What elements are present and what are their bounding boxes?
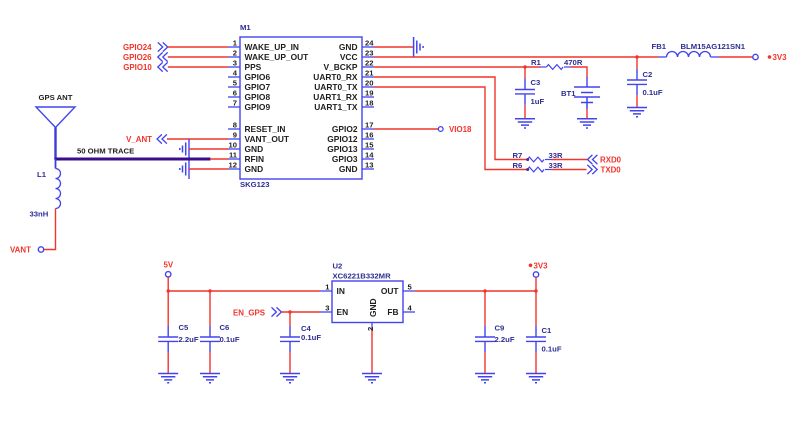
svg-text:21: 21 — [365, 69, 374, 78]
pin 14 GPIO3 of M1 — [332, 151, 374, 164]
junction C4 — [288, 310, 291, 313]
svg-text:7: 7 — [233, 99, 237, 108]
junction C9 — [483, 289, 486, 292]
wire pin 24 to ground — [374, 46, 413, 48]
pin 20 UART0_TX of M1 — [314, 79, 374, 92]
wire VCC rail pin 23 to FB1 — [374, 56, 659, 58]
svg-text:U2: U2 — [333, 262, 343, 271]
svg-text:RFIN: RFIN — [245, 154, 265, 164]
svg-text:1uF: 1uF — [531, 97, 545, 106]
wire EN_GPS to U2 EN — [281, 311, 320, 313]
svg-text:11: 11 — [229, 151, 238, 160]
ground below C6 — [200, 374, 220, 383]
svg-text:9: 9 — [233, 131, 237, 140]
svg-text:2.2uF: 2.2uF — [179, 335, 199, 344]
pin 13 GND of M1 — [339, 161, 374, 174]
resistor R6 — [526, 167, 551, 172]
battery BT1 — [574, 77, 600, 119]
pin 5 OUT of U2 — [381, 283, 415, 296]
node VIO18 port — [438, 125, 472, 134]
pin 11 RFIN of M1 — [228, 151, 264, 164]
svg-text:V_BCKP: V_BCKP — [324, 62, 358, 72]
svg-text:WAKE_UP_OUT: WAKE_UP_OUT — [245, 52, 310, 62]
pin 24 GND of M1 — [339, 39, 374, 52]
svg-text:3V3: 3V3 — [534, 261, 549, 270]
capacitor C5 — [158, 291, 178, 373]
svg-text:16: 16 — [365, 131, 373, 140]
ground at pin 10 (sideways) — [180, 143, 186, 156]
svg-text:14: 14 — [365, 151, 374, 160]
IC M1 GPS module body — [240, 37, 362, 179]
capacitor C6 — [200, 291, 220, 373]
pin 19 UART1_RX of M1 — [313, 89, 374, 102]
svg-text:PPS: PPS — [245, 62, 262, 72]
ground below C2 — [627, 108, 647, 117]
pin 10 GND of M1 — [228, 141, 263, 154]
svg-text:18: 18 — [365, 99, 373, 108]
svg-text:3: 3 — [325, 304, 329, 313]
svg-text:50 OHM TRACE: 50 OHM TRACE — [77, 147, 134, 156]
wire 5V rail to U2 IN — [168, 290, 320, 292]
node RXD0 — [588, 155, 622, 164]
svg-text:OUT: OUT — [381, 286, 400, 296]
pin 2 GND of U2 — [366, 298, 378, 331]
ground at pin 12 (sideways) — [180, 163, 186, 176]
svg-text:33R: 33R — [549, 151, 564, 160]
svg-text:UART1_RX: UART1_RX — [313, 92, 358, 102]
svg-text:WAKE_UP_IN: WAKE_UP_IN — [245, 42, 299, 52]
svg-text:23: 23 — [365, 49, 373, 58]
svg-text:BT1: BT1 — [561, 89, 576, 98]
svg-text:33R: 33R — [549, 161, 564, 170]
wire U2 OUT to +3V3 — [415, 290, 536, 292]
wire ground to pin 10 — [189, 148, 228, 150]
wire ground to pin 12 — [189, 168, 228, 170]
svg-text:0.1uF: 0.1uF — [301, 333, 321, 342]
svg-text:33nH: 33nH — [30, 210, 49, 219]
svg-text:GPIO6: GPIO6 — [245, 72, 271, 82]
node +3V3 port (bottom) — [529, 261, 548, 277]
node 5V port — [164, 260, 174, 277]
junction C3 branch — [523, 65, 526, 68]
svg-text:R1: R1 — [531, 58, 542, 67]
svg-text:UART1_TX: UART1_TX — [314, 102, 358, 112]
pin 9 VANT_OUT of M1 — [228, 131, 290, 144]
pin 8 RESET_IN of M1 — [228, 121, 285, 134]
ground below C1 — [526, 374, 546, 383]
inductor L1 — [56, 159, 61, 209]
wire GPIO24 to pin 1 — [168, 46, 228, 48]
svg-text:GPIO9: GPIO9 — [245, 102, 271, 112]
wire 50 ohm RF trace — [55, 158, 211, 161]
pin 23 VCC of M1 — [340, 49, 374, 62]
pin 18 UART1_TX of M1 — [314, 99, 374, 112]
svg-text:20: 20 — [365, 79, 373, 88]
svg-text:GND: GND — [339, 42, 358, 52]
svg-text:XC6221B332MR: XC6221B332MR — [333, 272, 392, 281]
svg-text:GPIO2: GPIO2 — [332, 124, 358, 134]
junction C1 / +3V3 — [534, 289, 537, 292]
svg-text:GPIO10: GPIO10 — [123, 63, 152, 72]
svg-text:0.1uF: 0.1uF — [542, 345, 562, 354]
svg-text:2: 2 — [233, 49, 237, 58]
ferrite bead FB1 — [659, 52, 720, 57]
svg-text:22: 22 — [365, 59, 373, 68]
svg-text:M1: M1 — [240, 23, 251, 32]
svg-text:L1: L1 — [37, 170, 47, 179]
svg-text:2: 2 — [366, 327, 375, 331]
svg-text:GPIO12: GPIO12 — [327, 134, 358, 144]
svg-text:17: 17 — [365, 121, 373, 130]
svg-text:C6: C6 — [220, 323, 230, 332]
svg-text:3V3: 3V3 — [773, 53, 788, 62]
node VANT port — [10, 245, 44, 254]
svg-text:GPIO8: GPIO8 — [245, 92, 271, 102]
pin 3 PPS of M1 — [228, 59, 262, 72]
svg-text:GPS ANT: GPS ANT — [39, 93, 73, 102]
svg-text:3: 3 — [233, 59, 237, 68]
pin 1 WAKE_UP_IN of M1 — [228, 39, 299, 52]
pin 5 GPIO7 of M1 — [228, 79, 270, 92]
svg-text:VANT: VANT — [10, 245, 31, 254]
pin 3 EN of U2 — [320, 304, 348, 317]
ground below BT1 — [577, 119, 597, 128]
svg-text:GPIO3: GPIO3 — [332, 154, 358, 164]
svg-text:VANT_OUT: VANT_OUT — [245, 134, 290, 144]
pin 17 GPIO2 of M1 — [332, 121, 374, 134]
svg-text:2.2uF: 2.2uF — [495, 335, 515, 344]
svg-text:GPIO7: GPIO7 — [245, 82, 271, 92]
svg-text:V_ANT: V_ANT — [126, 135, 152, 144]
svg-text:UART0_TX: UART0_TX — [314, 82, 358, 92]
pin 12 GND of M1 — [228, 161, 263, 174]
svg-text:C1: C1 — [542, 326, 553, 335]
svg-text:GPIO26: GPIO26 — [123, 53, 152, 62]
svg-text:GPIO13: GPIO13 — [327, 144, 358, 154]
capacitor C3 — [515, 67, 535, 119]
resistor R1 — [541, 65, 572, 70]
junction C6 — [208, 289, 211, 292]
svg-text:R6: R6 — [513, 161, 523, 170]
wire pin 21 UART0_RX to R7 — [374, 77, 527, 160]
ground at pin 24 (sideways) — [414, 37, 424, 57]
svg-text:RXD0: RXD0 — [600, 155, 622, 164]
wire R7 to RXD0 — [552, 159, 588, 161]
svg-text:6: 6 — [233, 89, 237, 98]
wire GPIO10 to pin 3 — [168, 66, 228, 68]
ground below U2 pin 2 — [362, 374, 382, 383]
pin 6 GPIO8 of M1 — [228, 89, 270, 102]
antenna GPS ANT — [36, 107, 75, 160]
pin 16 GPIO12 of M1 — [327, 131, 374, 144]
svg-text:GND: GND — [245, 144, 264, 154]
svg-text:BLM15AG121SN1: BLM15AG121SN1 — [681, 42, 746, 51]
svg-text:GND: GND — [368, 298, 378, 317]
junction C2 branch — [635, 55, 638, 58]
resistor R7 — [526, 157, 551, 162]
wire pin 20 UART0_TX to R6 — [374, 87, 527, 170]
svg-text:FB1: FB1 — [652, 42, 667, 51]
capacitor C4 — [280, 312, 300, 373]
svg-text:15: 15 — [365, 141, 374, 150]
svg-text:24: 24 — [365, 39, 374, 48]
svg-text:UART0_RX: UART0_RX — [313, 72, 358, 82]
pin 15 GPIO13 of M1 — [327, 141, 374, 154]
svg-text:RESET_IN: RESET_IN — [245, 124, 286, 134]
pin 1 IN of U2 — [320, 283, 345, 296]
svg-text:IN: IN — [337, 286, 345, 296]
svg-text:GND: GND — [245, 164, 264, 174]
svg-text:C5: C5 — [179, 323, 190, 332]
svg-text:C3: C3 — [531, 78, 541, 87]
svg-text:8: 8 — [233, 121, 237, 130]
capacitor C2 — [627, 57, 647, 107]
pin 7 GPIO9 of M1 — [228, 99, 270, 112]
node V_ANT — [126, 134, 167, 143]
wire bus joining pins 9-12 — [188, 139, 190, 179]
pin 4 GPIO6 of M1 — [228, 69, 270, 82]
svg-text:SKG123: SKG123 — [240, 180, 270, 189]
wire pin 17 GPIO2 to VIO18 — [374, 128, 438, 130]
wire +3V3 to rail — [535, 278, 537, 292]
svg-text:10: 10 — [229, 141, 237, 150]
svg-text:0.1uF: 0.1uF — [220, 335, 240, 344]
wire 5V to rail — [167, 277, 169, 291]
svg-text:C4: C4 — [301, 324, 312, 333]
svg-text:19: 19 — [365, 89, 373, 98]
wire R1 to BT1 — [571, 67, 587, 78]
svg-text:EN_GPS: EN_GPS — [233, 309, 265, 318]
svg-text:470R: 470R — [564, 58, 583, 67]
ground below C5 — [158, 374, 178, 383]
wire GPIO26 to pin 2 — [168, 56, 228, 58]
svg-text:C9: C9 — [495, 324, 505, 333]
wire FB1 to +3V3 port — [719, 56, 753, 58]
node +3V3 port (top right) — [753, 53, 787, 62]
voltage regulator U2 body — [332, 281, 403, 323]
node GPIO24 — [123, 42, 168, 51]
wire U2 GND to ground — [371, 331, 373, 374]
svg-text:GND: GND — [339, 164, 358, 174]
node TXD0 — [587, 165, 621, 174]
svg-text:C2: C2 — [643, 70, 653, 79]
wire V_ANT to pin 9 — [167, 138, 228, 140]
junction C5 — [167, 289, 170, 292]
svg-text:TXD0: TXD0 — [601, 165, 622, 174]
wire trace to pin 11 RFIN — [210, 158, 228, 160]
node GPIO26 — [123, 52, 168, 61]
svg-text:R7: R7 — [513, 151, 523, 160]
pin 22 V_BCKP of M1 — [324, 59, 374, 72]
svg-text:13: 13 — [365, 161, 373, 170]
pin 2 WAKE_UP_OUT of M1 — [228, 49, 309, 62]
wire V_BCKP pin 22 to R1 — [374, 66, 541, 68]
svg-text:0.1uF: 0.1uF — [643, 88, 663, 97]
node EN_GPS — [233, 307, 281, 317]
svg-text:5V: 5V — [164, 260, 174, 269]
capacitor C9 — [475, 291, 495, 373]
svg-text:VCC: VCC — [340, 52, 358, 62]
node GPIO10 — [123, 62, 167, 71]
capacitor C1 — [526, 291, 546, 373]
svg-text:GPIO24: GPIO24 — [123, 43, 152, 52]
svg-text:VIO18: VIO18 — [449, 125, 472, 134]
svg-text:FB: FB — [387, 307, 398, 317]
pin 4 FB of U2 — [387, 304, 415, 317]
ground below C4 — [280, 374, 300, 383]
wire R6 to TXD0 — [552, 169, 587, 171]
ground below C3 — [515, 119, 535, 128]
pin 21 UART0_RX of M1 — [313, 69, 374, 82]
svg-text:12: 12 — [229, 161, 237, 170]
wire L1 to VANT port — [44, 209, 56, 250]
ground below C9 — [475, 374, 495, 383]
svg-text:EN: EN — [337, 307, 349, 317]
